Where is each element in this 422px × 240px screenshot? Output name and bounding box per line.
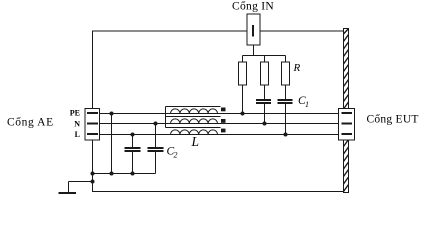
polarity mark winding PE: [221, 108, 226, 112]
capacitor C2 (L leg): [125, 148, 141, 151]
wire C2b vertical: [155, 124, 157, 149]
svg-text:1: 1: [305, 100, 309, 109]
wire AE box bottom vertical: [92, 140, 94, 192]
resistor R1: [239, 62, 247, 85]
wire R1 bottom lead: [242, 85, 244, 114]
polarity mark winding N: [221, 119, 226, 123]
connector EUT box: [339, 109, 355, 141]
contact N: [87, 123, 98, 125]
node C2a on L bus: [131, 133, 135, 137]
inductor L core lines: [166, 107, 221, 128]
wire top horizontal: [93, 30, 344, 32]
node C2b on N bus: [154, 122, 158, 126]
wire R3-C1b lead: [285, 85, 287, 100]
svg-text:Cổng AE: Cổng AE: [7, 115, 54, 128]
svg-text:L: L: [75, 130, 80, 139]
wire C2 bottom bus: [93, 173, 156, 175]
node C2 bus right: [131, 172, 135, 176]
node C2 bus mid: [110, 172, 114, 176]
inductor L winding N: [171, 119, 218, 124]
wire left vertical: [92, 31, 94, 109]
IN box pin: [252, 25, 254, 37]
connector IN box: [247, 14, 260, 45]
wire C2a vertical: [132, 135, 134, 149]
node C1a on N bus: [263, 122, 267, 126]
contact EUT PE: [342, 112, 353, 114]
wire resistor rail: [243, 55, 286, 57]
capacitor C1 (L leg): [278, 100, 293, 103]
svg-text:Cổng EUT: Cổng EUT: [367, 113, 419, 126]
wire PE bus: [100, 113, 339, 115]
wire N bus: [100, 123, 339, 125]
inductor L winding PE: [171, 109, 218, 114]
wire L bus: [100, 134, 339, 136]
contact PE: [87, 112, 98, 114]
node PE tap: [110, 112, 114, 116]
node C2 bus left: [91, 172, 95, 176]
shield wall: [344, 29, 349, 193]
resistor R2: [261, 62, 269, 85]
svg-text:R: R: [293, 62, 301, 74]
wire R2-C1a lead: [264, 85, 266, 100]
wire PE tap vertical: [111, 114, 113, 174]
node C1b on L bus: [284, 133, 288, 137]
svg-text:L: L: [191, 134, 200, 149]
contact L: [87, 133, 98, 135]
contact EUT N: [342, 123, 353, 125]
wire ground riser: [68, 182, 70, 193]
svg-text:Cổng IN: Cổng IN: [232, 0, 274, 13]
capacitor C2 (N leg): [148, 148, 164, 151]
node ground branch: [91, 180, 95, 184]
svg-text:2: 2: [174, 151, 178, 160]
contact EUT L: [342, 133, 353, 135]
polarity mark winding L: [221, 129, 226, 133]
connector AE box: [85, 109, 100, 141]
wire bottom horizontal: [93, 191, 344, 193]
junction dots: [91, 112, 288, 184]
inductor L winding L: [171, 130, 218, 135]
wire ground branch: [69, 181, 93, 183]
capacitor C1 (N leg): [256, 100, 271, 103]
resistor R3: [282, 62, 290, 85]
svg-text:N: N: [74, 119, 80, 128]
node R1 on PE bus: [241, 112, 245, 116]
svg-text:PE: PE: [70, 109, 80, 118]
wire IN box lower vertical: [253, 45, 255, 56]
ground: [59, 192, 77, 194]
